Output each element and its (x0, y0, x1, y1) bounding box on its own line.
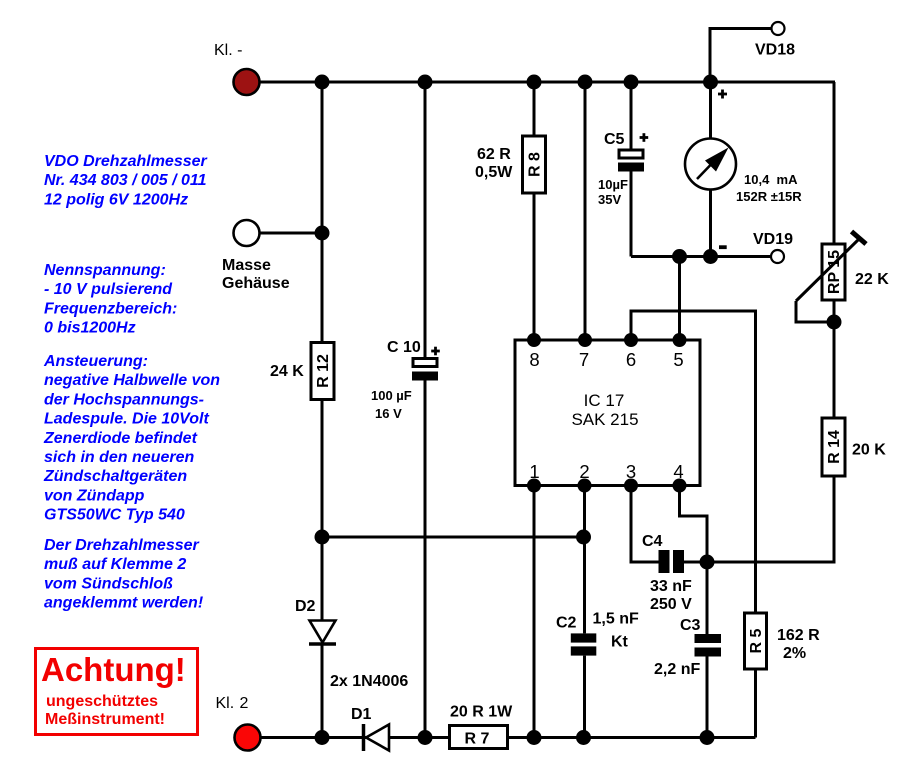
svg-text:negative Halbwelle von: negative Halbwelle von (44, 372, 220, 389)
IC17 SAK215 body (515, 340, 700, 486)
terminal VD19 (753, 231, 793, 263)
wire mid horizontal (R12 node to pin 2) (322, 536, 584, 539)
meter (moving-coil instrument 10,4 mA) (685, 139, 736, 190)
svg-text:C4: C4 (642, 533, 663, 550)
note blue block 4 (44, 537, 204, 612)
svg-text:muß auf Klemme 2: muß auf Klemme 2 (44, 556, 186, 573)
wire pin4 elbow to C4 node (680, 486, 708, 563)
junction RP15 wiper node (827, 315, 842, 330)
svg-text:12 polig 6V 1200Hz: 12 polig 6V 1200Hz (44, 191, 188, 208)
wire meter bottom lead (709, 189, 712, 257)
terminal Kl.- (214, 42, 260, 95)
svg-text:R 7: R 7 (465, 731, 490, 748)
wire meter top lead (709, 82, 712, 140)
svg-text:35V: 35V (598, 192, 621, 207)
value label R5 (777, 627, 820, 662)
value label C4 (650, 578, 692, 613)
capacitor C5 (electrolytic 10uF 35V) (618, 82, 644, 257)
capacitor C2 (1,5 nF Kt) (571, 486, 597, 738)
junction bottom bus / C2 (576, 730, 591, 745)
svg-text:1,5 nF: 1,5 nF (593, 611, 639, 628)
terminal VD18 (755, 22, 795, 59)
junction bottom bus / pin1 (527, 730, 542, 745)
svg-text:VD18: VD18 (755, 42, 795, 59)
svg-text:Gehäuse: Gehäuse (222, 275, 290, 292)
note blue block 2 (44, 262, 177, 337)
junction bottom bus / C10 (418, 730, 433, 745)
value label C5 (598, 177, 628, 207)
svg-text:SAK 215: SAK 215 (571, 410, 638, 429)
svg-text:C5: C5 (604, 131, 625, 148)
junction top bus / R12 (315, 75, 330, 90)
svg-text:Kl. -: Kl. - (214, 42, 242, 59)
svg-text:5: 5 (673, 349, 683, 370)
svg-text:152R ±15R: 152R ±15R (736, 189, 802, 204)
svg-text:D2: D2 (295, 598, 316, 615)
value label C2 (593, 611, 639, 651)
junction top bus / pin7 (578, 75, 593, 90)
wire Masse to R12 line (260, 232, 323, 235)
note blue block 3 (43, 353, 220, 524)
svg-text:D1: D1 (351, 706, 372, 723)
svg-text:Nennspannung:: Nennspannung: (44, 262, 166, 279)
potentiometer RP15 (22 K) (822, 244, 845, 300)
svg-text:250 V: 250 V (650, 596, 692, 613)
svg-text:GTS50WC Typ 540: GTS50WC Typ 540 (44, 507, 185, 524)
polarity mark + of C5 (640, 133, 649, 142)
junction top bus / C5 (624, 75, 639, 90)
svg-text:C 10: C 10 (387, 339, 421, 356)
svg-text:6: 6 (626, 349, 636, 370)
pin 3 (624, 461, 638, 493)
svg-text:2,2 nF: 2,2 nF (654, 661, 700, 678)
svg-text:R 12: R 12 (315, 354, 332, 388)
wiper arrow of RP15 (796, 232, 866, 302)
svg-text:0,5W: 0,5W (475, 164, 513, 181)
svg-text:Meßinstrument!: Meßinstrument! (45, 711, 165, 728)
svg-text:62 R: 62 R (477, 146, 511, 163)
svg-text:Frequenzbereich:: Frequenzbereich: (44, 300, 177, 317)
pin 2 (578, 461, 592, 493)
pin 5 (673, 333, 687, 370)
svg-text:von Zündapp: von Zündapp (44, 487, 145, 504)
junction mid horizontal / pin2 (576, 530, 591, 545)
svg-text:IC 17: IC 17 (584, 391, 625, 410)
resistor R12 (24 K) (311, 82, 334, 400)
note blue block 1 (44, 153, 208, 208)
wire RP15 bottom to R14 top (833, 300, 836, 418)
junction bottom bus / D2 (315, 730, 330, 745)
svg-text:2: 2 (240, 695, 249, 712)
svg-text:10,4 mA: 10,4 mA (744, 172, 798, 187)
junction VD19 row / meter (703, 249, 718, 264)
resistor R8 (62 R 0,5W) (523, 82, 546, 340)
svg-text:angeklemmt werden!: angeklemmt werden! (44, 595, 204, 612)
svg-text:Der Drehzahlmesser: Der Drehzahlmesser (44, 537, 200, 554)
svg-text:Nr. 434 803 / 005 / 011: Nr. 434 803 / 005 / 011 (44, 172, 207, 189)
wire VD19 row (C5 minus / meter minus / VD19) (631, 255, 770, 258)
wire bottom bus (Kl.2 rail) (253, 736, 756, 739)
pin 6 (624, 333, 638, 370)
svg-text:VD19: VD19 (753, 231, 793, 248)
value label C10 (371, 388, 412, 421)
svg-text:24 K: 24 K (270, 363, 304, 380)
svg-text:0 bis1200Hz: 0 bis1200Hz (44, 320, 136, 337)
polarity mark + at meter top (718, 90, 727, 99)
svg-text:100 µF: 100 µF (371, 388, 412, 403)
svg-text:- 10 V pulsierend: - 10 V pulsierend (44, 281, 173, 298)
wire VD18 stub (710, 29, 771, 83)
svg-text:Ansteuerung:: Ansteuerung: (43, 353, 148, 370)
junction top bus / meter (703, 75, 718, 90)
svg-text:C2: C2 (556, 615, 577, 632)
value label meter (736, 172, 802, 204)
resistor R5 (162 R 2%) (745, 613, 767, 738)
junction C4 / C3 / R14 node (700, 555, 715, 570)
wire RP15 wiper to divider node (796, 301, 834, 322)
terminal Kl.2 (216, 695, 261, 751)
svg-text:Zündschaltgeräten: Zündschaltgeräten (43, 468, 187, 485)
svg-text:vom Sündschloß: vom Sündschloß (44, 575, 173, 592)
diode D2 (309, 621, 336, 645)
svg-text:Zenerdiode befindet: Zenerdiode befindet (43, 430, 198, 447)
junction VD19 row / pin5 (672, 249, 687, 264)
svg-text:Achtung!: Achtung! (41, 651, 186, 688)
svg-text:162 R: 162 R (777, 627, 820, 644)
svg-text:7: 7 (579, 349, 589, 370)
svg-text:sich in den neueren: sich in den neueren (44, 449, 194, 466)
polarity mark + of C10 (431, 347, 440, 356)
value label R8 (475, 146, 513, 181)
svg-text:33 nF: 33 nF (650, 578, 692, 595)
svg-text:VDO Drehzahlmesser: VDO Drehzahlmesser (44, 153, 208, 170)
svg-text:3: 3 (626, 461, 636, 482)
junction top bus / R8 (527, 75, 542, 90)
svg-text:22 K: 22 K (855, 271, 889, 288)
polarity mark - at meter bottom (719, 245, 727, 249)
wire pin5 vertical (678, 257, 681, 341)
junction top bus / C10 (418, 75, 433, 90)
resistor R14 (20 K) (822, 418, 845, 476)
wire top bus (Kl.- rail) (252, 81, 835, 84)
capacitor C4 (33 nF 250 V) (631, 486, 707, 574)
svg-text:4: 4 (673, 461, 683, 482)
pin 7 (578, 333, 592, 370)
wire C4 node to R14 bottom (707, 476, 834, 562)
svg-text:1: 1 (529, 461, 539, 482)
svg-text:C3: C3 (680, 617, 701, 634)
junction Masse / R12 line (315, 226, 330, 241)
svg-text:R 8: R 8 (527, 152, 544, 177)
wire D2 cathode to bottom bus (321, 644, 324, 738)
svg-text:20 R 1W: 20 R 1W (450, 704, 513, 721)
svg-text:16 V: 16 V (375, 406, 402, 421)
svg-text:R 5: R 5 (748, 628, 765, 653)
warning box Achtung (36, 649, 198, 735)
wire R12 bottom to D2 (321, 400, 324, 622)
wire right vertical from top bus down to RP15 (833, 82, 836, 244)
svg-text:Kt: Kt (611, 634, 629, 651)
pin 1 (527, 461, 541, 493)
wire pin7 vertical (584, 82, 587, 340)
diode D1 (364, 724, 390, 751)
capacitor C3 (2,2 nF) (695, 562, 722, 738)
svg-text:2x 1N4006: 2x 1N4006 (330, 673, 408, 690)
wire pin6 net to R5 top (631, 311, 756, 613)
svg-text:Kl.: Kl. (216, 695, 235, 712)
junction mid horizontal / R12 line (315, 530, 330, 545)
svg-text:2: 2 (579, 461, 589, 482)
pin 4 (673, 461, 687, 493)
terminal Masse Gehaeuse (222, 220, 290, 292)
svg-text:8: 8 (529, 349, 539, 370)
svg-text:Ladespule. Die 10Volt: Ladespule. Die 10Volt (44, 411, 209, 428)
svg-text:R 14: R 14 (826, 430, 843, 464)
svg-text:20 K: 20 K (852, 442, 886, 459)
svg-text:10µF: 10µF (598, 177, 628, 192)
pin 8 (527, 333, 541, 370)
junction bottom bus / C3 (700, 730, 715, 745)
svg-text:Masse: Masse (222, 257, 271, 274)
wire pin1 vertical to bottom bus (533, 486, 536, 738)
svg-text:2%: 2% (783, 645, 806, 662)
svg-text:der Hochspannungs-: der Hochspannungs- (44, 391, 204, 408)
capacitor C10 (electrolytic 100uF 16V) (412, 82, 438, 738)
svg-text:ungeschütztes: ungeschütztes (46, 693, 158, 710)
resistor R7 (20 R 1W) (450, 726, 508, 749)
